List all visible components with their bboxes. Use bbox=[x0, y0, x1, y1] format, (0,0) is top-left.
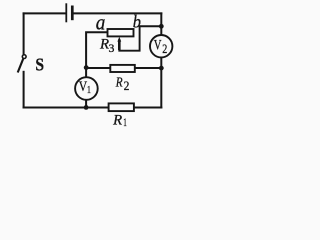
svg-text:2: 2 bbox=[162, 43, 167, 56]
switch S: pivot circle bbox=[22, 55, 26, 59]
wire wiper tap: stem down, right, riser up to node b wire bbox=[119, 26, 139, 50]
voltmeter V2 label bbox=[154, 37, 168, 56]
wire right upper: top-right corner down to V2 top bbox=[160, 13, 162, 35]
svg-text:a: a bbox=[96, 11, 106, 34]
svg-text:2: 2 bbox=[124, 79, 130, 94]
rheostat R3 wiper stem bbox=[118, 40, 121, 50]
wire rheostat a-lead: left then down to V1 top node bbox=[86, 32, 107, 67]
junction dot: wiper/b node on right edge bbox=[159, 24, 164, 29]
rheostat R3 body bbox=[108, 29, 134, 36]
switch S: blade bbox=[18, 59, 24, 73]
wire V1 bottom lead bbox=[85, 100, 87, 108]
wire top-left: battery left lead bbox=[24, 12, 66, 14]
svg-text:R: R bbox=[112, 113, 122, 129]
wire right lower: V2 bottom down to bottom-right corner bbox=[160, 57, 162, 108]
resistor R2 body bbox=[110, 65, 135, 72]
battery: long thin plate (left) bbox=[65, 3, 67, 22]
svg-text:1: 1 bbox=[87, 85, 91, 96]
svg-text:3: 3 bbox=[109, 41, 115, 55]
wire R2 branch: V1 top node to right edge node bbox=[86, 67, 161, 69]
junction dot: R2 right node bbox=[159, 66, 164, 71]
svg-text:1: 1 bbox=[123, 116, 127, 129]
junction dot: V1 bottom node bbox=[84, 105, 89, 110]
svg-text:R: R bbox=[115, 74, 123, 89]
voltmeter V1 circle bbox=[75, 77, 98, 100]
wire bottom: full bottom run through R1 bbox=[24, 107, 162, 109]
label R1 bbox=[112, 113, 127, 130]
wire V1 top lead bbox=[85, 68, 87, 78]
wire left lower: switch to bottom-left corner bbox=[23, 72, 25, 108]
label R2 bbox=[115, 74, 129, 93]
voltmeter V2 circle bbox=[150, 35, 172, 57]
battery: short thick plate (right) bbox=[71, 6, 74, 21]
wire left upper: corner down to switch pivot bbox=[23, 13, 25, 54]
wire top-right: battery right lead to top-right corner bbox=[73, 12, 161, 14]
svg-text:b: b bbox=[133, 12, 142, 32]
rheostat R3 wiper arrow bbox=[117, 37, 121, 42]
svg-text:S: S bbox=[35, 55, 44, 75]
label R3 bbox=[99, 37, 115, 55]
svg-text:V: V bbox=[154, 37, 162, 53]
voltmeter V1 label bbox=[79, 78, 92, 97]
junction dot: V1 top node bbox=[84, 65, 89, 70]
resistor R1 body bbox=[109, 103, 134, 111]
wire node-b horizontal to right edge junction bbox=[140, 25, 162, 27]
